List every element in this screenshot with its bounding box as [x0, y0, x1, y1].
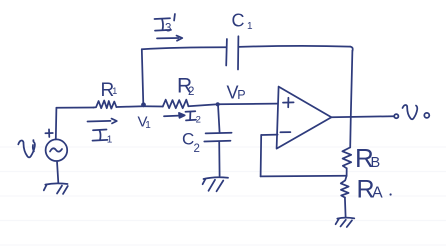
- i of Vi: [32, 139, 34, 141]
- output wire: [331, 116, 394, 117]
- prime of I3: [173, 14, 176, 21]
- wire RA to ground: [344, 198, 347, 217]
- capacitor C1 left plate: [225, 39, 228, 66]
- svg-text:C: C: [182, 130, 194, 149]
- corner hook top right: [350, 47, 352, 51]
- capacitor C2 top plate: [206, 132, 232, 135]
- wire feedback bottom horizontal: [261, 175, 347, 178]
- op-amp plus input sign: [283, 101, 294, 103]
- o subscript of Vo: [424, 113, 429, 118]
- svg-text:2: 2: [188, 86, 194, 98]
- tilde inside source: [50, 148, 62, 151]
- script V of Vo output: [403, 105, 418, 119]
- resistor RB: [342, 147, 351, 168]
- wire to inverting input: [261, 134, 277, 136]
- source circle: [46, 139, 68, 161]
- svg-text:1: 1: [112, 86, 117, 96]
- output terminal circle: [394, 114, 398, 118]
- label I2 hand-drawn I: [186, 110, 196, 113]
- ground under C2: [204, 177, 229, 179]
- node Vp: [216, 102, 220, 106]
- wire RB to junction: [346, 168, 348, 176]
- voltage source Vi vertical top: [55, 108, 58, 139]
- plus sign of source: [45, 132, 52, 134]
- node V1: [141, 102, 146, 107]
- current I2 arrow: [164, 115, 179, 118]
- current I3 arrow: [157, 37, 179, 39]
- svg-text:2: 2: [196, 115, 201, 126]
- svg-text:P: P: [237, 88, 245, 102]
- wire right vertical down to RB: [350, 51, 352, 148]
- current I1 arrow: [88, 120, 111, 123]
- wire R1 to node V1: [116, 105, 143, 108]
- op-amp U1 triangle: [277, 87, 332, 149]
- ground under Vi: [45, 183, 67, 184]
- label I3 hand-drawn I: [155, 17, 171, 20]
- svg-text:1: 1: [247, 21, 253, 32]
- resistor R1: [94, 101, 117, 109]
- svg-text:A: A: [372, 185, 383, 202]
- wire C1 to right corner: [239, 46, 351, 47]
- svg-text:2: 2: [194, 143, 200, 155]
- capacitor C1 right plate: [237, 36, 239, 69]
- capacitor C2 bottom plate: [204, 140, 230, 143]
- resistor R2: [163, 100, 189, 109]
- wire Vp down to C2: [218, 104, 220, 133]
- label I1 hand-drawn I: [93, 129, 107, 132]
- wire top left to C1: [142, 47, 227, 49]
- ground under RA: [337, 217, 354, 220]
- svg-text:B: B: [371, 155, 381, 171]
- svg-text:1: 1: [145, 120, 151, 131]
- wire input horizontal from source corner to R1: [57, 107, 94, 109]
- script V of Vi: [18, 140, 35, 157]
- wire feedback left vertical: [260, 135, 263, 176]
- svg-text:1: 1: [107, 134, 113, 145]
- period after RA: [390, 193, 392, 195]
- svg-text:C: C: [232, 10, 245, 30]
- wire V1 to R2: [144, 105, 163, 107]
- wire R2 to node Vp: [188, 104, 217, 106]
- wire V1 up to top feedback: [142, 49, 144, 104]
- op-amp minus input sign: [280, 131, 290, 133]
- resistor RA: [341, 176, 349, 198]
- wire Vp to op-amp: [218, 103, 278, 106]
- svg-text:3: 3: [165, 23, 171, 35]
- wire C2 to ground: [218, 142, 220, 177]
- source bottom wire: [57, 161, 58, 182]
